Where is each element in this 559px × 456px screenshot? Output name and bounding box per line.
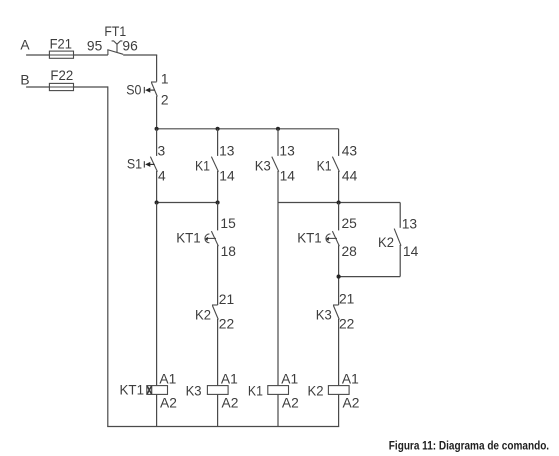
svg-text:13: 13 (402, 217, 418, 232)
coil K1 A1-A2 (268, 386, 289, 395)
svg-text:25: 25 (342, 216, 358, 231)
svg-text:18: 18 (221, 244, 237, 259)
coil K2 A1-A2 (328, 386, 349, 395)
wire main drop to S0 (156, 55, 158, 82)
svg-text:96: 96 (122, 39, 138, 54)
coil K3 A1-A2 (207, 386, 228, 395)
wire K3-column to K1 coil (277, 203, 279, 386)
timed contact KT1 15-18 (217, 203, 219, 231)
svg-text:K1: K1 (195, 158, 210, 173)
svg-text:3: 3 (158, 144, 166, 159)
svg-text:KT1: KT1 (176, 231, 201, 246)
svg-text:43: 43 (342, 144, 358, 159)
svg-text:13: 13 (219, 144, 235, 159)
svg-text:14: 14 (280, 169, 296, 184)
svg-text:A2: A2 (343, 396, 360, 411)
fuse F22 (49, 83, 73, 90)
svg-text:21: 21 (219, 292, 234, 307)
wire K2 coil to rail (338, 394, 340, 426)
wire S1-column to KT1 coil (156, 203, 158, 386)
node line 2 left (157, 202, 218, 204)
svg-text:2: 2 (161, 92, 169, 107)
node line 1 (157, 128, 339, 130)
svg-text:K2: K2 (195, 307, 211, 322)
svg-text:FT1: FT1 (104, 24, 126, 39)
timer coil KT1 A1-A2 (147, 386, 168, 395)
overload contact FT1 95-96 (107, 50, 109, 55)
svg-text:15: 15 (220, 216, 236, 231)
svg-text:KT1: KT1 (297, 231, 322, 246)
wire K1 coil to rail (277, 394, 279, 426)
wire KT1 coil to rail (156, 394, 158, 426)
svg-text:S0: S0 (126, 83, 141, 98)
svg-text:A1: A1 (342, 372, 359, 387)
wire B-to-F22 (26, 86, 49, 88)
wire K3 coil to rail (217, 394, 219, 426)
wire A-to-F21 (26, 54, 49, 56)
svg-text:28: 28 (342, 244, 358, 259)
svg-text:B: B (20, 72, 29, 87)
svg-text:K3: K3 (186, 383, 202, 398)
svg-text:1: 1 (161, 72, 169, 87)
contact K2 21-22 (NC) (212, 304, 218, 306)
svg-text:A: A (20, 37, 30, 52)
junction node2-K1(44) (337, 200, 341, 204)
svg-text:A1: A1 (221, 372, 238, 387)
wire F22-to-B-rail (74, 86, 108, 88)
wire FT1-to-corner (123, 54, 157, 56)
svg-text:44: 44 (342, 169, 358, 184)
svg-text:A2: A2 (282, 396, 299, 411)
junction node1-K1 (216, 127, 220, 131)
svg-text:F22: F22 (50, 68, 73, 83)
junction return node (337, 275, 341, 279)
svg-text:22: 22 (219, 317, 234, 332)
svg-text:4: 4 (158, 169, 166, 184)
junction node1-K3 (276, 127, 280, 131)
contact K3 13-14 (277, 129, 279, 156)
wire B vertical rail (107, 86, 109, 426)
svg-text:S1: S1 (127, 157, 142, 172)
node line 2 right (278, 202, 400, 204)
contact K1 13-14 (217, 129, 219, 156)
svg-text:A2: A2 (160, 396, 177, 411)
svg-text:22: 22 (339, 316, 354, 331)
wire F21-to-FT1 (74, 54, 108, 56)
junction node2-K1 (216, 200, 220, 204)
junction node2-S1 (155, 200, 159, 204)
svg-text:A1: A1 (281, 372, 298, 387)
svg-text:K1: K1 (248, 383, 263, 398)
svg-text:K1: K1 (317, 158, 332, 173)
svg-text:95: 95 (87, 39, 103, 54)
bottom rail (107, 426, 339, 428)
svg-text:K2: K2 (308, 383, 324, 398)
svg-text:Figura 11: Diagrama de comando: Figura 11: Diagrama de comando. (389, 439, 549, 453)
svg-text:A1: A1 (159, 372, 176, 387)
timed contact KT1 25-28 (338, 203, 340, 231)
return wire K2-to-KT1 node (339, 276, 401, 278)
svg-text:K2: K2 (378, 235, 394, 250)
contact K3 21-22 (NC) (333, 304, 339, 306)
svg-text:14: 14 (219, 169, 235, 184)
svg-text:21: 21 (339, 292, 354, 307)
fuse F21 (49, 51, 73, 58)
svg-text:A2: A2 (222, 396, 239, 411)
wire S0-to-node1 (156, 96, 158, 129)
svg-text:K3: K3 (316, 307, 332, 322)
svg-text:KT1: KT1 (120, 383, 145, 398)
svg-text:13: 13 (279, 144, 295, 159)
junction node1-S1 (155, 127, 159, 131)
contact K2 13-14 (399, 203, 401, 228)
pushbutton S0 (NC) 1-2 (151, 81, 157, 83)
svg-text:F21: F21 (50, 37, 72, 52)
svg-text:K3: K3 (255, 158, 271, 173)
svg-text:14: 14 (403, 244, 419, 259)
contact K1 43-44 (338, 129, 340, 156)
pushbutton S1 (NO) 3-4 (156, 129, 158, 156)
